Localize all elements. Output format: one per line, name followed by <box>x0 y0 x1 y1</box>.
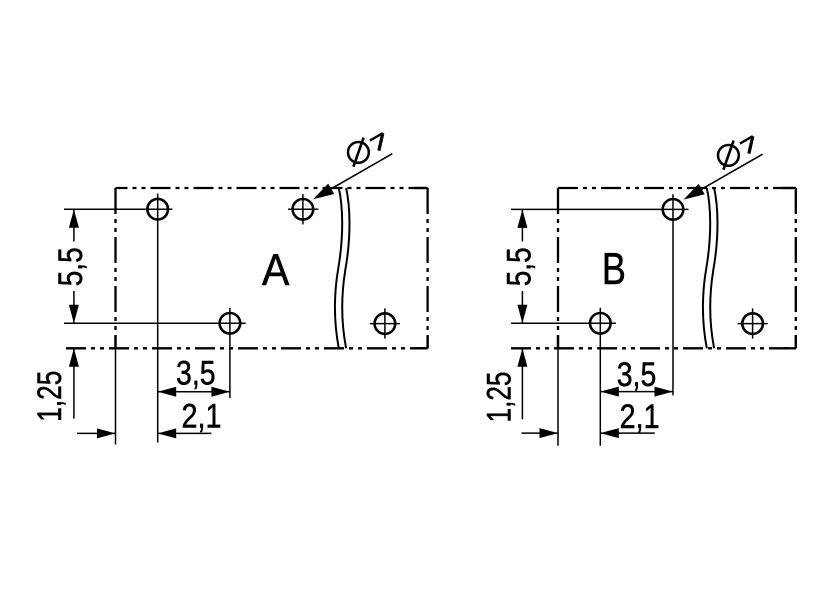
dimension 1,25 B <box>480 348 527 422</box>
hole B2 (bottom-left) <box>590 313 611 334</box>
svg-text:A: A <box>262 246 290 295</box>
svg-text:2,1: 2,1 <box>620 398 660 436</box>
svg-text:1,25: 1,25 <box>480 372 518 423</box>
extension line B hole2 vertical <box>599 308 601 446</box>
svg-text:5,5: 5,5 <box>52 247 90 286</box>
extension line A bottom row <box>64 322 246 324</box>
hole A2 (top-right) <box>288 194 318 224</box>
extension line B bottom row <box>511 322 616 324</box>
hole A3 (bottom-middle) <box>220 313 241 334</box>
dimension 2,1 A <box>77 397 222 438</box>
extension line A hole3 vertical <box>229 308 231 398</box>
svg-text:B: B <box>602 245 626 294</box>
extension line B left edge vertical <box>557 348 559 445</box>
hole B1 (top) <box>663 199 684 220</box>
break line A (wavy) <box>335 188 350 348</box>
svg-text:3,5: 3,5 <box>176 355 216 393</box>
break line B (wavy) <box>703 188 718 348</box>
board outline A (phantom dash-dot-dot) <box>66 188 428 348</box>
leader diameter 1 B <box>684 136 763 199</box>
extension line B top row <box>511 208 689 210</box>
dimension 3,5 A <box>158 355 230 397</box>
svg-text:5,5: 5,5 <box>500 247 538 286</box>
extension line A top row <box>64 208 172 210</box>
dimension 5,5 B <box>500 209 538 323</box>
extension line B hole1 vertical <box>672 194 674 395</box>
hole A4 (bottom-right) <box>370 308 400 338</box>
svg-text:1,25: 1,25 <box>31 371 69 422</box>
label A <box>262 246 290 295</box>
dimension 5,5 A <box>52 209 90 323</box>
board outline B (phantom dash-dot-dot) <box>511 188 796 348</box>
dimension 3,5 B <box>600 356 673 397</box>
label B <box>602 245 626 294</box>
dimension 2,1 B <box>522 398 660 438</box>
extension line A hole1 vertical <box>157 194 159 443</box>
extension line A left edge vertical <box>115 348 117 444</box>
hole A1 (top-left) <box>147 199 168 220</box>
svg-text:2,1: 2,1 <box>182 397 222 435</box>
dimension 1,25 A <box>31 348 79 421</box>
svg-text:3,5: 3,5 <box>617 356 657 394</box>
hole B3 (bottom-right) <box>738 308 768 338</box>
leader diameter 1 A <box>313 133 392 199</box>
